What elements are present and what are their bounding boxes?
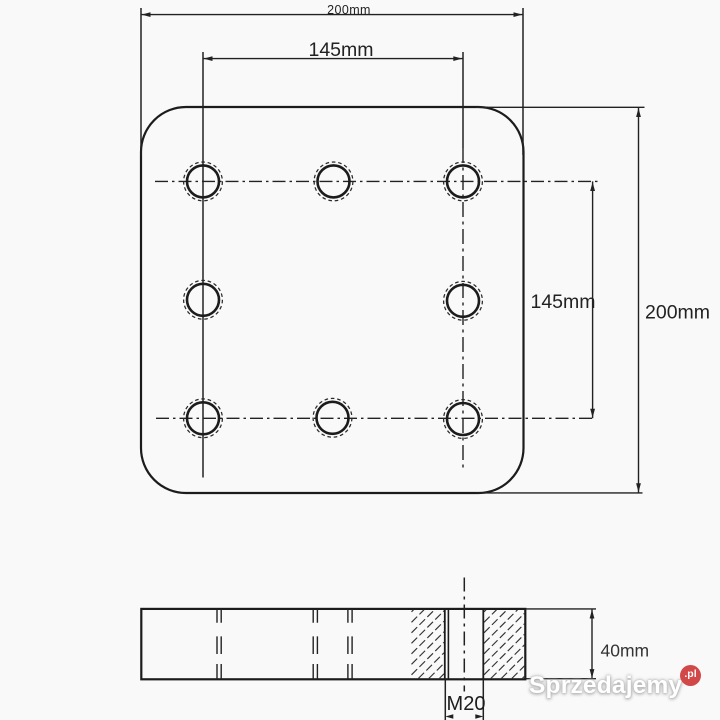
hole bottom-right: tapped through-hole: [444, 400, 483, 439]
hatch right of M20 hole: section hatching 45deg: [484, 610, 525, 679]
extension line M20 left: [444, 679, 446, 720]
hidden lines: left hole (right edge pair): [216, 609, 218, 679]
thread line left (minor dia): [447, 609, 449, 679]
hole bottom-middle: tapped through-hole: [313, 398, 352, 437]
thread bore wall right: [482, 609, 484, 679]
extension/center line vertical through left hole column: [202, 52, 204, 478]
extension line right (200mm top dim): [522, 8, 524, 155]
centerline of M20 tapped hole (vertical dash-dot): [463, 578, 465, 692]
hole bottom-left: tapped through-hole: [184, 399, 223, 438]
centerline horizontal through top hole row: [155, 180, 598, 182]
plate outline (top view, 200x200 rounded square): [141, 107, 524, 493]
thread bore wall left (major dia): [444, 609, 446, 679]
centerline vertical right hole column (dash-dot): [462, 148, 464, 470]
side view plate body rectangle (40mm thick): [141, 609, 525, 679]
dimension 145mm (right vertical, hole row spacing): [530, 181, 595, 418]
svg-text:200mm: 200mm: [327, 3, 371, 17]
extension line left (200mm top dim): [140, 8, 142, 156]
hole top-middle: tapped through-hole: [314, 162, 353, 201]
M20 dimension arrows: [445, 714, 453, 718]
extension line vertical right hole column (upper solid part): [462, 52, 464, 148]
svg-text:145mm: 145mm: [530, 291, 595, 313]
svg-text:200mm: 200mm: [645, 302, 710, 324]
hole middle-left: tapped through-hole: [184, 280, 223, 319]
dimension 200mm (right vertical, plate height): [636, 107, 710, 493]
extension line bottom (40mm dim): [525, 678, 596, 680]
hole top-right: tapped through-hole: [444, 162, 483, 201]
dimension 40mm (plate thickness): [590, 609, 650, 679]
svg-text:M20: M20: [447, 693, 486, 715]
watermark .pl red badge: [680, 665, 701, 686]
centerline horizontal through bottom hole row: [156, 417, 594, 419]
extension line top (40mm dim): [525, 608, 596, 610]
hole middle-right: tapped through-hole: [444, 281, 483, 320]
watermark sprzedajemy.pl: [529, 672, 682, 700]
dimension 200mm (top horizontal): [141, 3, 523, 17]
dimension 145mm (top horizontal, hole spacing): [203, 39, 463, 61]
hidden lines: middle hole right edge pair: [347, 609, 349, 679]
svg-text:40mm: 40mm: [601, 640, 650, 660]
plate top edge extended right (extension for 200mm vertical dim): [476, 106, 645, 108]
hidden lines: middle hole left edge pair: [312, 609, 314, 679]
extension line M20 right: [482, 679, 484, 720]
svg-text:145mm: 145mm: [308, 39, 373, 61]
hole top-left: tapped through-hole: [184, 162, 223, 201]
hatch left of M20 hole: section hatching 45deg: [412, 610, 445, 679]
plate bottom edge extended right (extension for 200mm vertical dim): [476, 492, 643, 494]
